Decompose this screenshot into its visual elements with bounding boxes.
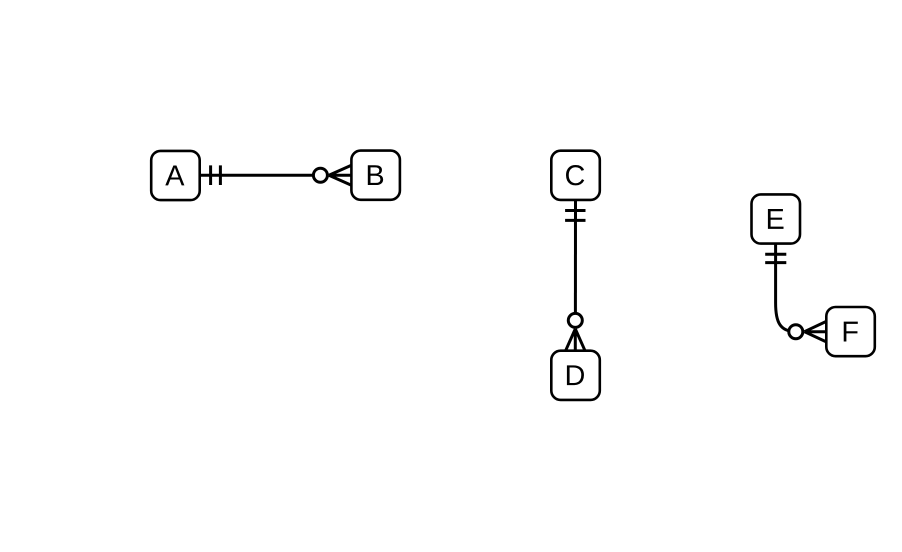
crow's foot many (B side) [329,165,352,185]
one marks (ticks, E side) [765,254,786,262]
entity D [551,351,600,400]
entity C [551,151,600,200]
wire C-D [574,200,577,321]
one marks (ticks, A side) [211,165,221,185]
crow's foot many (F side) [804,321,826,342]
entity E [752,194,801,243]
one marks (ticks, C side) [565,211,585,221]
entity B [351,151,400,200]
entity A [151,151,200,200]
zero circle (D side) [568,313,582,327]
wire E-F (curved) [776,244,796,332]
zero circle (B side) [313,168,327,182]
entity F [826,307,875,356]
crow's foot many (D side) [566,329,585,351]
zero circle (F side) [789,325,803,339]
wire A-B [200,174,321,177]
